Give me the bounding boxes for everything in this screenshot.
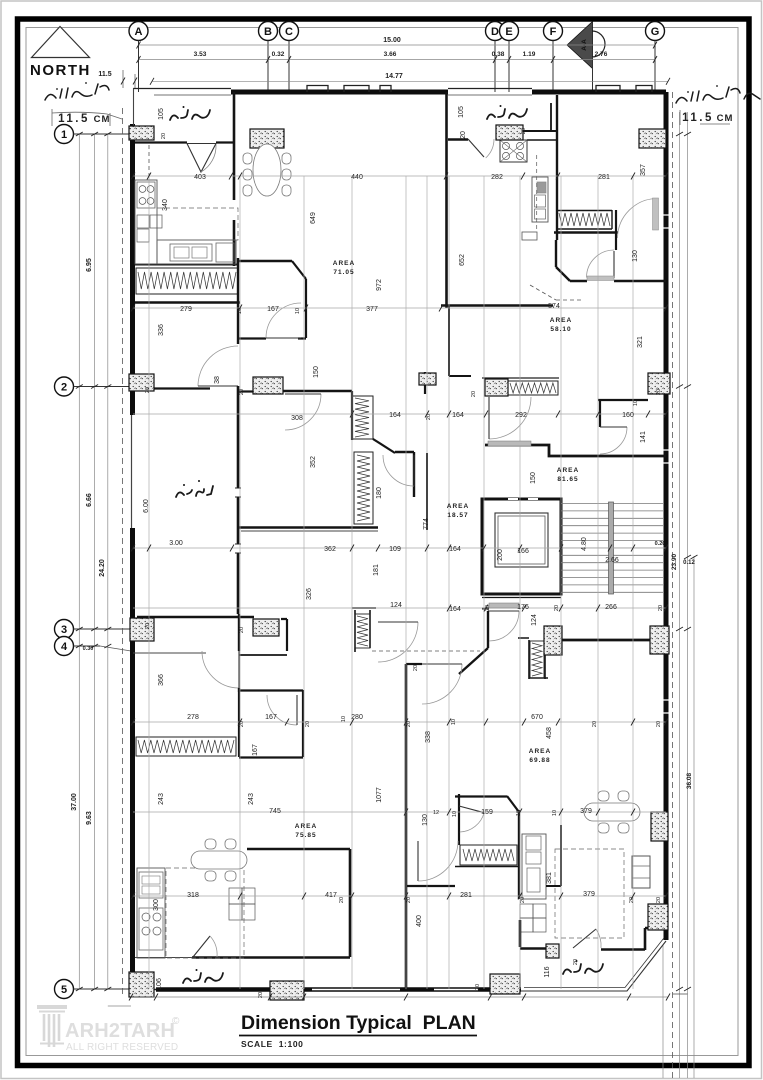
right wall extension line [662,945,664,1078]
pier terrace bottom-right [546,944,559,958]
svg-text:2.76: 2.76 [595,51,608,58]
room 167 lower box [239,690,303,758]
left terrace edge top [133,89,135,127]
grid bubble D [486,22,505,41]
taras label (Persian) bottom-left [183,973,223,983]
row5 stem [74,988,132,990]
room 159 right wall x519 [518,810,520,899]
svg-text:326: 326 [306,588,313,600]
wall above radiator row2 [482,377,559,379]
svg-text:164: 164 [449,546,461,553]
svg-text:281: 281 [460,892,472,899]
svg-text:6.00: 6.00 [143,499,150,513]
dashed terrace boundary top-left [148,145,150,176]
svg-text:20: 20 [161,133,167,139]
kitchen top-left counter along wall [135,180,157,264]
wall y305 (574 room bottom) [441,304,553,307]
svg-text:279: 279 [180,306,192,313]
svg-text:6.66: 6.66 [86,493,93,507]
pier row1 left wall [129,126,154,140]
dim row 14.77 [152,80,668,82]
dashed rug bottom-right [555,849,624,938]
svg-text:243: 243 [158,793,165,805]
radiator zigzag center lower [357,616,368,646]
radiator row2 zigzag [510,383,556,393]
svg-text:F: F [550,26,557,38]
svg-text:5: 5 [61,984,67,996]
pier row3 B-C [253,619,279,636]
pier row5 B-C [270,981,304,1000]
row ticks [131,173,135,180]
wall x446 terrace DE left [445,92,448,308]
left expansion joint dashed line [122,108,124,997]
svg-text:141: 141 [640,431,647,443]
svg-text:164: 164 [389,412,401,419]
terrace A partition wall [135,141,187,143]
svg-text:20: 20 [471,391,477,397]
dining table bottom-left [191,839,247,881]
darz-engheta label top-right (Persian script) [676,87,760,103]
svg-text:266: 266 [605,604,617,611]
svg-text:20: 20 [406,897,412,903]
door sill 176 [489,603,519,608]
closet zigzag top-right [559,213,610,226]
svg-text:130: 130 [422,814,429,826]
svg-text:11.5: 11.5 [682,112,714,124]
wall B vertical (terrace/dining) [233,92,236,266]
svg-text:105: 105 [158,108,165,120]
wall y655 right of door [239,654,287,656]
svg-text:20: 20 [656,721,662,727]
radiator zigzag top center [355,398,369,437]
svg-text:417: 417 [325,892,337,899]
pier center hall [544,626,562,655]
svg-text:C: C [285,26,293,38]
wall x520 bottom [519,920,522,947]
svg-text:9.63: 9.63 [86,811,93,825]
dim row 15.00 [139,44,656,46]
svg-text:649: 649 [310,212,317,224]
svg-text:81.65: 81.65 [557,476,578,483]
svg-text:20: 20 [658,605,664,611]
grid bubble A [129,22,148,41]
svg-text:3: 3 [61,624,67,636]
svg-text:3.53: 3.53 [194,51,207,58]
bottom right mini dim [673,993,688,995]
diagonal wall center [373,439,395,453]
svg-text:20: 20 [258,992,264,998]
pier row3 left wall [130,618,154,641]
svg-text:106: 106 [156,978,163,990]
stairs treads [561,504,663,593]
door room130 bottom [587,250,615,278]
closet hatch room 279 [136,268,238,294]
kitchen DE sink counter [532,177,548,222]
bottom dim line 2 [108,1005,131,1007]
door sill room130 [587,276,614,281]
svg-text:381: 381 [546,872,553,884]
svg-text:160: 160 [622,412,634,419]
svg-text:150: 150 [530,472,537,484]
svg-text:1.19: 1.19 [523,51,536,58]
svg-text:124: 124 [531,614,538,626]
svg-text:377: 377 [366,306,378,313]
door room 167 lower [267,695,297,725]
pier row5 D [490,974,520,994]
svg-text:ALL RIGHT RESERVED: ALL RIGHT RESERVED [66,1042,178,1053]
grid G stem [654,41,656,93]
svg-text:292: 292 [515,412,527,419]
row4 stem [74,645,101,647]
top terrace edge A-B thin [133,88,231,90]
room167u chamfer [292,261,306,279]
svg-text:167: 167 [252,744,259,756]
svg-text:20: 20 [426,414,432,420]
door sill right wall [653,198,659,230]
wall y140 kitchen [527,139,558,141]
svg-text:6.95: 6.95 [86,258,93,272]
right outer wall [664,92,669,940]
svg-text:D: D [491,26,499,38]
dashed kitchen work zone top-left [157,208,238,240]
closet below center pier [518,638,548,679]
svg-text:280: 280 [351,714,363,721]
grid F stem [552,41,554,93]
svg-text:10: 10 [633,400,639,406]
room167u right wall [305,279,307,338]
dashed kitchen DE line [536,155,538,232]
pier row1 G [639,129,666,148]
grid bubble 5 [55,980,74,999]
wall x414 corridor [413,452,415,497]
svg-text:243: 243 [248,793,255,805]
svg-text:20: 20 [145,623,151,629]
right wall window notches [664,215,669,713]
svg-text:20: 20 [239,721,245,727]
checker tiles bottom-center [520,904,533,918]
room167u bottom wall [238,337,306,339]
door 308 [285,394,321,430]
pier row2 left wall [129,374,154,391]
svg-text:308: 308 [291,415,303,422]
svg-text:4: 4 [61,641,68,653]
thin line row4 y653 [133,652,206,654]
elevator door notch [508,498,538,500]
svg-text:321: 321 [637,336,644,348]
svg-text:20: 20 [239,389,245,395]
taras label (Persian) bottom-right [563,964,603,974]
grid bubble 2 [55,377,74,396]
svg-text:745: 745 [269,808,281,815]
corridor top wall y452 [395,451,414,453]
dashed kitchen work zone bottom-left [166,868,244,958]
svg-text:338: 338 [425,731,432,743]
grid A stem [138,41,140,93]
darz-engheta label top-left (Persian script) [45,84,109,100]
svg-text:18.57: 18.57 [447,512,468,519]
right dimension column lines [679,112,681,1078]
svg-text:AREA: AREA [529,748,551,755]
wall x238 vertical [237,258,239,344]
svg-text:38: 38 [214,376,221,384]
svg-text:20: 20 [145,387,151,393]
door leaf bottom center [417,841,419,881]
door terrace A arc [201,145,216,173]
wall y527 lightwell-room bottom [238,526,378,529]
svg-text:166: 166 [517,548,529,555]
wall y131 kitchen top [523,130,558,132]
wall x556 kitchen-room divider [555,240,557,267]
svg-text:357: 357 [640,164,647,176]
radiator lower center walls [352,608,376,652]
svg-text:20: 20 [475,984,481,990]
grid B stem [267,41,269,93]
door corridor center [383,455,414,486]
svg-text:4.80: 4.80 [581,537,588,551]
wall segment y949 right + corner [601,928,666,950]
svg-text:20: 20 [656,389,662,395]
svg-text:403: 403 [194,174,206,181]
pier row3 right wall [650,626,669,654]
section marker stem [592,57,594,92]
pier row2 D [485,379,508,396]
svg-text:69.88: 69.88 [529,757,550,764]
door hall top-left [198,346,238,386]
wall x451 below 574 [448,305,450,376]
wall x551 short [550,103,552,131]
checker tiles bottom-left [229,888,242,904]
svg-text:340: 340 [162,199,169,211]
svg-text:0.12: 0.12 [683,560,695,566]
svg-text:2.66: 2.66 [605,557,619,564]
stair hall top wall [485,445,666,456]
door room 160 [600,427,627,454]
radiator room 159 [460,845,517,865]
svg-text:E: E [505,26,512,38]
svg-text:20: 20 [592,721,598,727]
leader top-left [52,109,122,126]
radiator wall top center [351,391,353,440]
svg-text:130: 130 [632,250,639,262]
svg-text:352: 352 [310,456,317,468]
taras label (Persian) top-left [170,110,210,120]
kitchen top-left bottom counter [157,240,236,264]
svg-text:10: 10 [516,810,522,816]
radiator box top center [352,396,373,439]
svg-text:300: 300 [153,899,160,911]
svg-text:164: 164 [449,606,461,613]
wardrobe bottom-right [632,856,650,888]
radiator row2 box [508,381,558,395]
spine x427 mid [426,453,428,530]
svg-text:20: 20 [520,897,526,903]
pier right wall lower [648,904,668,930]
door room 167 upper [266,303,301,338]
stairs central stringer [609,502,614,594]
grid bubble 3 [55,620,74,639]
svg-text:124: 124 [390,602,402,609]
row2 walls right of corridor [449,375,471,377]
title underline [239,1035,477,1037]
pier row1 D-E [496,125,523,140]
svg-text:36.08: 36.08 [686,772,693,789]
diagonal room corner top-right [556,267,570,281]
right expansion joint dashed line [672,92,674,1078]
svg-text:0.38: 0.38 [492,51,505,58]
door leaf kitchen BL [193,936,210,957]
left dimension column lines [78,134,80,989]
svg-text:167: 167 [267,306,279,313]
door terrace DE arc [486,139,494,158]
svg-text:574: 574 [548,303,560,310]
svg-text:105: 105 [458,106,465,118]
kitchen bottom-left counters [137,868,165,958]
noorgir label (Persian) [176,486,213,497]
svg-text:10: 10 [295,308,301,314]
svg-text:NORTH: NORTH [30,62,91,79]
svg-text:71.05: 71.05 [333,269,354,276]
stove top-left [137,182,155,208]
svg-text:20: 20 [305,721,311,727]
svg-text:B: B [264,26,272,38]
stove top-right (4 burners) [500,140,527,162]
dining table top-left [243,144,291,196]
closet room 279 bottom wall [135,301,240,303]
svg-text:282: 282 [491,174,503,181]
svg-text:CM: CM [94,114,111,125]
elevator shaft outer [482,499,561,594]
checker tiles top-left closet [137,215,149,228]
grid bubble C [280,22,299,41]
door hall lower [489,611,519,641]
svg-text:109: 109 [389,546,401,553]
svg-text:20: 20 [485,605,491,611]
spine x425 upper [424,372,426,394]
svg-text:366: 366 [158,674,165,686]
svg-text:14.77: 14.77 [385,73,403,80]
kitchen top-left lower counter wall [135,264,238,266]
svg-text:20: 20 [573,959,579,965]
closet zigzag room 278 [138,740,234,753]
row3 stem [74,628,132,630]
bottom terrace edge left [133,989,156,991]
door sill 292 [488,441,531,446]
dim web horizontal lines [133,176,666,896]
kitchen bottom-center counter [522,834,546,899]
dim row segments [139,59,656,61]
lightwell window ticks [235,488,241,553]
pier right wall 36.08 [651,812,668,841]
wall y616 segments B-C [281,619,287,651]
svg-text:200: 200 [497,549,504,561]
room167u top wall [238,260,292,262]
svg-text:AREA: AREA [295,823,317,830]
svg-text:10: 10 [552,810,558,816]
door corridor to living [378,622,418,662]
logo pillar icon [37,1007,67,1047]
section marker pennant [567,22,593,69]
grid bubble E [500,22,519,41]
top outer wall B-D thick [231,90,448,95]
svg-text:23.90: 23.90 [671,553,678,570]
svg-text:CM: CM [717,113,734,124]
grid bubble 4 [55,637,74,656]
svg-text:180: 180 [376,487,383,499]
top terrace D-E edge thin [448,88,532,90]
spine x406 lower [405,664,408,990]
bottom wall windows [312,989,478,991]
dim web vertical lines [149,176,633,989]
terrace bottom-right wall [520,947,546,949]
pier row2 right wall [648,373,670,394]
wall y281 [570,280,666,282]
grid bubble G [646,22,665,41]
section marker circle A-A [579,31,605,57]
bottom terrace parapet right [521,941,666,991]
pier row2 B-C [253,377,283,394]
svg-text:G: G [651,26,660,38]
svg-text:AREA: AREA [550,317,572,324]
svg-text:©: © [172,1016,180,1027]
grid bubble F [544,22,563,41]
svg-text:AREA: AREA [333,260,355,267]
door on x239 wall [202,651,239,688]
svg-text:20: 20 [460,131,467,139]
svg-text:20: 20 [521,128,527,134]
row4 stem kink [100,646,131,651]
sink top-left [170,244,212,261]
svg-text:20: 20 [339,897,345,903]
svg-text:1077: 1077 [376,787,383,803]
terrace DE bottom wall [448,138,468,140]
elevator car inner [495,513,548,567]
svg-text:336: 336 [158,324,165,336]
svg-text:670: 670 [531,714,543,721]
dashed corridor line [372,650,480,652]
door room 159 [460,813,484,832]
dining table bottom-right [584,791,640,833]
svg-text:362: 362 [324,546,336,553]
grid bubble 1 [55,125,74,144]
wall y886 segments [406,885,455,887]
top outer wall E-G thick [532,90,666,95]
svg-text:20: 20 [656,897,662,903]
svg-text:3.66: 3.66 [384,51,397,58]
door leaf terrace BR [573,929,596,948]
taras label (Persian) top-right [487,109,527,119]
door top-right room arc [618,199,658,239]
grid D stem [494,41,496,93]
tall radiator center box [354,452,373,524]
svg-text:58.10: 58.10 [550,326,571,333]
top-right room bottom wall y232 [554,231,618,233]
svg-text:0.30: 0.30 [83,646,94,652]
closet zigzag below pier [532,643,542,676]
svg-text:24.20: 24.20 [99,559,106,577]
fridge top-left [216,243,234,262]
dashed corner 574 room [530,285,583,300]
svg-text:20: 20 [629,897,635,903]
svg-text:20: 20 [239,627,245,633]
svg-text:20: 20 [413,665,419,671]
svg-text:181: 181 [373,564,380,576]
svg-text:10: 10 [451,719,457,725]
svg-text:SCALE 1:100: SCALE 1:100 [241,1039,303,1049]
bottom dim line [131,996,668,998]
closet zigzag room 279 [138,272,236,289]
closet room 278 box [136,737,236,756]
svg-text:10: 10 [341,716,347,722]
